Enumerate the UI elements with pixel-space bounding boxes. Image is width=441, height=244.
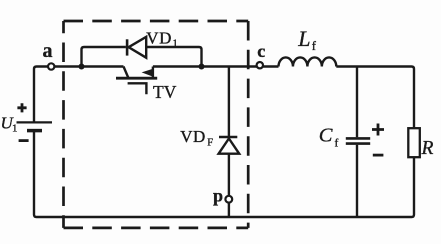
node c terminal circle [257, 62, 263, 68]
svg-text:R: R [421, 138, 434, 159]
node p terminal circle [225, 196, 232, 203]
capacitor Cf bottom plate [346, 142, 370, 145]
dashed box (chopper cell) [64, 21, 249, 228]
wire: bottom rail and left rail below battery [34, 132, 414, 217]
wire: capacitor branch lower [356, 145, 358, 217]
diode VD1 cathode bar [126, 39, 129, 55]
diode VD1 triangle [129, 37, 147, 58]
node a terminal circle [48, 63, 54, 69]
transistor TV gate lead [128, 83, 147, 94]
junction dot at VD1 left tap [79, 64, 85, 70]
diode VDF cathode bar [219, 136, 237, 139]
svg-text:VD: VD [180, 127, 206, 146]
capacitor minus sign [373, 154, 384, 157]
battery U1 negative plate [27, 129, 42, 133]
transistor TV emitter arrow [142, 69, 153, 76]
transistor TV channel bar [116, 77, 157, 80]
battery minus sign [19, 139, 29, 142]
capacitor Cf top plate [346, 137, 370, 140]
svg-text:1: 1 [12, 123, 18, 135]
transistor TV emitter lead [152, 67, 154, 78]
svg-text:a: a [43, 40, 53, 62]
svg-text:c: c [257, 41, 265, 61]
svg-text:F: F [207, 138, 213, 149]
svg-text:TV: TV [153, 82, 177, 102]
battery plus sign [17, 103, 26, 112]
battery U1 positive plate [17, 121, 53, 123]
transistor TV collector slant [124, 67, 129, 78]
capacitor plus sign [372, 124, 384, 136]
wire: left rail from battery up and top wire to transistor [34, 67, 124, 123]
wire: top wire from transistor emitter to inductor [153, 65, 279, 67]
wire: capacitor branch upper [356, 67, 358, 138]
diode VDF triangle [219, 139, 240, 154]
svg-text:L: L [297, 26, 310, 51]
svg-text:p: p [213, 185, 223, 205]
svg-text:1: 1 [173, 39, 178, 50]
wire: top wire from inductor to right rail down to resistor [336, 67, 414, 129]
wire: VD1 loop branch (up-over-down) [82, 47, 202, 67]
resistor R body [408, 128, 420, 157]
wire: freewheel branch upper segment [228, 67, 230, 138]
svg-text:C: C [319, 125, 333, 147]
svg-text:VD: VD [146, 29, 172, 48]
inductor Lf coil [279, 57, 337, 66]
junction dot at VD1 right tap [199, 64, 205, 70]
svg-text:f: f [335, 137, 339, 149]
wire: freewheel branch lower segment through node p [228, 154, 230, 217]
